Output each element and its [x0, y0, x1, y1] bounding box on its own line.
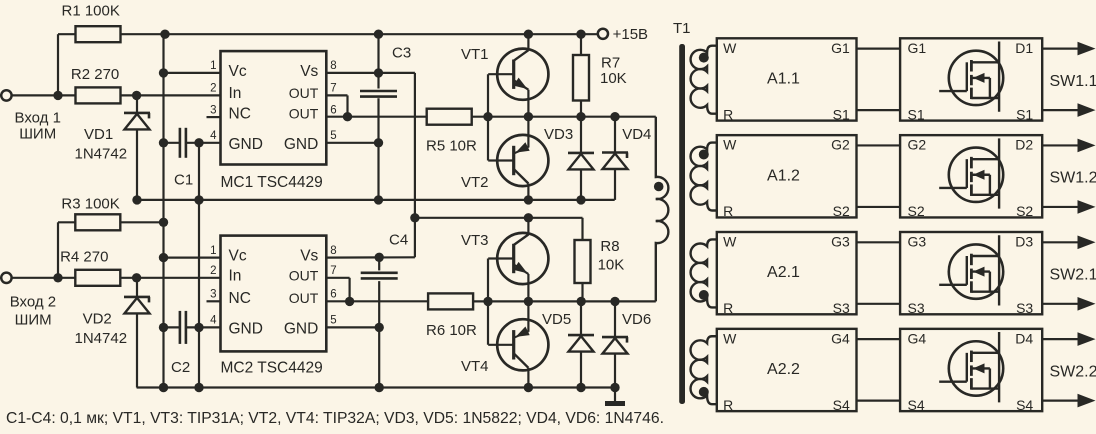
svg-text:5: 5 — [330, 315, 336, 327]
svg-text:5: 5 — [330, 130, 336, 142]
svg-text:C4: C4 — [389, 232, 408, 249]
svg-text:D2: D2 — [1015, 137, 1033, 153]
svg-text:10K: 10K — [600, 70, 627, 87]
svg-text:OUT: OUT — [289, 267, 319, 283]
svg-text:W: W — [723, 137, 737, 153]
svg-text:G1: G1 — [908, 40, 927, 56]
svg-text:G1: G1 — [831, 40, 850, 56]
svg-text:SW1.1: SW1.1 — [1050, 73, 1096, 90]
svg-text:1N4742: 1N4742 — [75, 145, 128, 162]
svg-text:A2.2: A2.2 — [767, 361, 800, 378]
svg-text:GND: GND — [229, 136, 263, 153]
svg-text:Vc: Vc — [229, 248, 247, 265]
svg-text:W: W — [723, 330, 737, 346]
svg-text:S2: S2 — [833, 203, 850, 219]
svg-text:1: 1 — [210, 245, 216, 257]
svg-text:G3: G3 — [908, 234, 927, 250]
svg-text:GND: GND — [229, 321, 263, 338]
svg-text:C3: C3 — [392, 45, 411, 62]
svg-text:NC: NC — [229, 290, 251, 307]
svg-text:C2: C2 — [171, 359, 190, 376]
svg-text:3: 3 — [210, 289, 216, 301]
svg-text:R8: R8 — [600, 238, 619, 255]
svg-text:ШИМ: ШИМ — [19, 125, 56, 142]
svg-text:10K: 10K — [598, 257, 625, 274]
svg-text:ШИМ: ШИМ — [15, 312, 52, 329]
svg-text:S3: S3 — [908, 300, 925, 316]
svg-text:3: 3 — [210, 104, 216, 116]
svg-text:R7: R7 — [601, 55, 620, 72]
svg-text:A1.1: A1.1 — [767, 70, 800, 87]
svg-text:6: 6 — [330, 104, 336, 116]
svg-text:VT2: VT2 — [461, 174, 489, 191]
svg-text:S4: S4 — [833, 397, 850, 413]
svg-text:R: R — [723, 397, 733, 413]
svg-text:W: W — [723, 40, 737, 56]
svg-text:G3: G3 — [831, 234, 850, 250]
svg-text:S4: S4 — [908, 397, 925, 413]
svg-text:1: 1 — [210, 60, 216, 72]
svg-text:SW1.2: SW1.2 — [1050, 170, 1096, 187]
svg-text:SW2.1: SW2.1 — [1050, 267, 1096, 284]
svg-text:2: 2 — [210, 265, 216, 277]
svg-text:W: W — [723, 234, 737, 250]
svg-text:Вход 2: Вход 2 — [10, 294, 56, 311]
svg-text:G4: G4 — [831, 330, 850, 346]
svg-text:R: R — [723, 300, 733, 316]
svg-text:Вход 1: Вход 1 — [15, 110, 61, 127]
svg-text:R2 270: R2 270 — [71, 66, 119, 83]
svg-text:C1-C4: 0,1 мк; VT1, VT3: TIP31: C1-C4: 0,1 мк; VT1, VT3: TIP31A; VT2, VT… — [6, 410, 664, 427]
svg-text:Vs: Vs — [300, 248, 318, 265]
svg-text:+15В: +15В — [613, 26, 648, 43]
svg-text:VD4: VD4 — [622, 126, 651, 143]
svg-text:R5 10R: R5 10R — [426, 138, 477, 155]
svg-text:GND: GND — [284, 136, 318, 153]
svg-text:R4 270: R4 270 — [60, 249, 108, 266]
svg-text:MC2 TSC4429: MC2 TSC4429 — [221, 360, 323, 377]
svg-text:7: 7 — [330, 83, 336, 95]
svg-text:S2: S2 — [1016, 203, 1033, 219]
svg-text:8: 8 — [330, 60, 336, 72]
svg-text:VD6: VD6 — [622, 311, 651, 328]
svg-text:SW2.2: SW2.2 — [1050, 363, 1096, 380]
svg-text:4: 4 — [210, 315, 217, 327]
svg-text:D1: D1 — [1015, 40, 1033, 56]
svg-text:Vs: Vs — [300, 63, 318, 80]
svg-text:S3: S3 — [833, 300, 850, 316]
svg-text:GND: GND — [284, 321, 318, 338]
svg-text:OUT: OUT — [289, 85, 319, 101]
svg-text:7: 7 — [330, 265, 336, 277]
svg-text:R3 100K: R3 100K — [61, 195, 119, 212]
svg-text:VT3: VT3 — [461, 232, 489, 249]
svg-text:OUT: OUT — [289, 106, 319, 122]
svg-text:S1: S1 — [833, 106, 850, 122]
svg-text:OUT: OUT — [289, 290, 319, 306]
svg-text:G2: G2 — [831, 137, 850, 153]
svg-text:S3: S3 — [1016, 300, 1033, 316]
svg-text:MC1 TSC4429: MC1 TSC4429 — [221, 174, 323, 191]
svg-text:G4: G4 — [908, 330, 927, 346]
svg-text:4: 4 — [210, 130, 217, 142]
svg-text:S2: S2 — [908, 203, 925, 219]
svg-text:VD5: VD5 — [542, 311, 571, 328]
svg-text:In: In — [229, 267, 242, 284]
svg-text:S1: S1 — [1016, 106, 1033, 122]
svg-text:1N4742: 1N4742 — [75, 330, 128, 347]
svg-text:NC: NC — [229, 106, 251, 123]
svg-text:VT1: VT1 — [461, 46, 489, 63]
svg-text:C1: C1 — [174, 172, 193, 189]
svg-text:VD3: VD3 — [544, 126, 573, 143]
svg-text:8: 8 — [330, 245, 336, 257]
svg-text:Vc: Vc — [229, 63, 247, 80]
svg-text:R6 10R: R6 10R — [426, 322, 477, 339]
svg-text:S1: S1 — [908, 106, 925, 122]
svg-text:A1.2: A1.2 — [767, 167, 800, 184]
svg-text:R: R — [723, 203, 733, 219]
svg-text:In: In — [229, 85, 242, 102]
svg-text:S4: S4 — [1016, 397, 1033, 413]
svg-text:6: 6 — [330, 289, 336, 301]
svg-text:VD1: VD1 — [84, 126, 113, 143]
svg-text:Т1: Т1 — [673, 20, 691, 37]
svg-text:A2.1: A2.1 — [767, 264, 800, 281]
svg-text:VD2: VD2 — [83, 310, 112, 327]
svg-text:D3: D3 — [1015, 234, 1033, 250]
svg-text:VT4: VT4 — [461, 358, 489, 375]
svg-text:R: R — [723, 106, 733, 122]
svg-text:2: 2 — [210, 83, 216, 95]
svg-text:R1 100K: R1 100K — [62, 3, 120, 20]
svg-text:D4: D4 — [1015, 330, 1033, 346]
svg-text:G2: G2 — [908, 137, 927, 153]
